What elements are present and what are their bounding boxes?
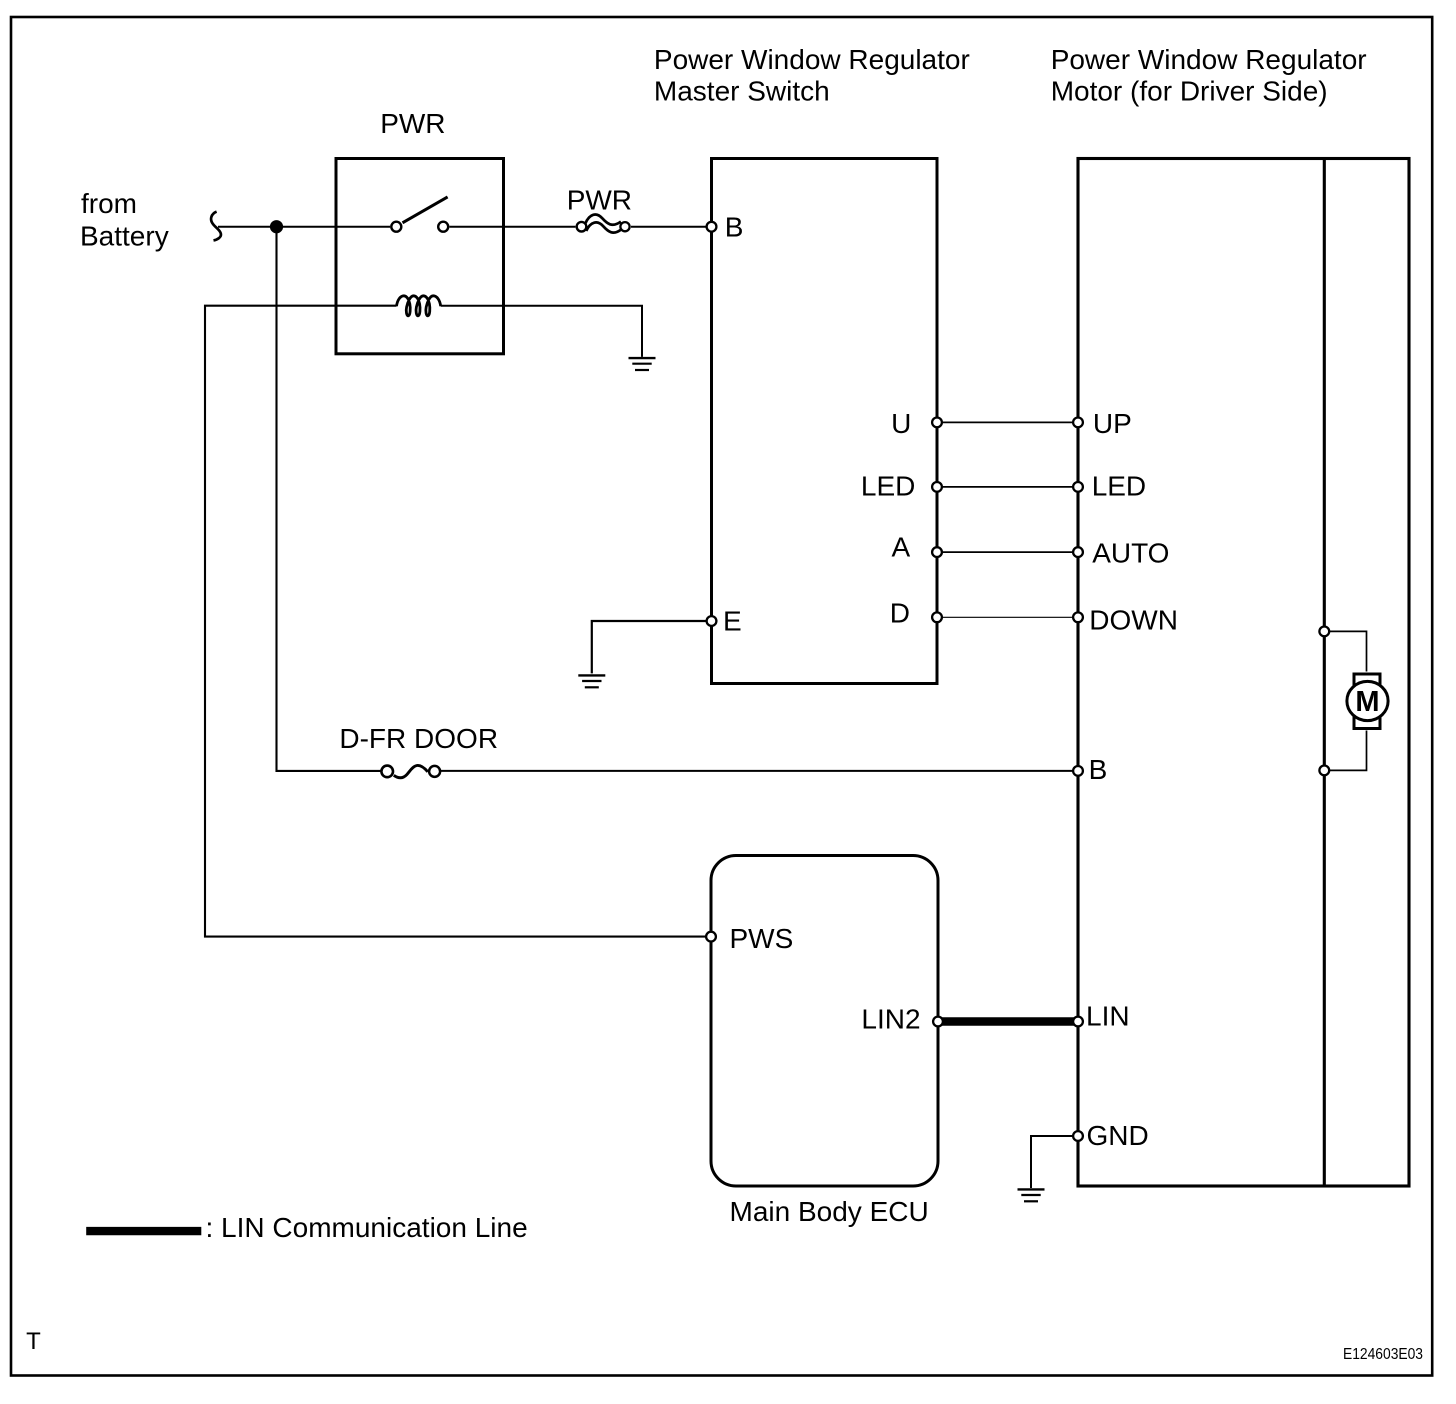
relay PWR box xyxy=(336,159,504,354)
wire: coil right lead to ground xyxy=(441,306,642,357)
LIN communication line (thick) xyxy=(942,1017,1074,1025)
terminal motor + (bus upper) xyxy=(1319,627,1329,637)
svg-text:U: U xyxy=(891,408,911,439)
terminal U (master switch) xyxy=(932,418,942,428)
svg-text:LED: LED xyxy=(861,471,915,502)
terminal E xyxy=(707,616,717,626)
svg-text:Main Body ECU: Main Body ECU xyxy=(730,1196,929,1227)
svg-text:PWR: PWR xyxy=(380,108,445,139)
svg-text:LIN: LIN xyxy=(1086,1001,1130,1032)
title: Power Window Regulator Master Switch xyxy=(654,44,970,107)
motor box xyxy=(1078,159,1409,1187)
terminal LED (master switch) xyxy=(932,482,942,492)
wire: D to DOWN xyxy=(943,616,1072,618)
master switch box xyxy=(712,159,938,684)
svg-text:Battery: Battery xyxy=(80,220,169,251)
svg-text:A: A xyxy=(892,531,911,562)
svg-text:: LIN Communication Line: : LIN Communication Line xyxy=(206,1212,528,1243)
svg-text:Power Window Regulator: Power Window Regulator xyxy=(1051,44,1367,75)
battery connector pigtail xyxy=(211,212,221,241)
motor M1 (window regulator motor) xyxy=(1347,674,1388,729)
svg-text:PWS: PWS xyxy=(730,923,794,954)
svg-text:E124603E03: E124603E03 xyxy=(1343,1346,1423,1363)
fuse D-FR DOOR (wavy element) xyxy=(394,765,428,777)
svg-text:Motor (for Driver Side): Motor (for Driver Side) xyxy=(1051,75,1328,106)
wire: coil left lead / PWS feed xyxy=(205,306,706,937)
label: from Battery xyxy=(80,188,169,251)
wire: relay switch to fuse PWR xyxy=(450,226,576,228)
wire: motor bus to motor top brush xyxy=(1330,631,1367,671)
wire: battery node down to D-FR DOOR fuse xyxy=(277,227,382,771)
legend: LIN communication line sample xyxy=(86,1227,201,1235)
terminal UP (motor) xyxy=(1073,418,1083,428)
fuse PWR terminal left xyxy=(577,222,587,232)
terminal GND (motor) xyxy=(1073,1131,1083,1141)
svg-text:from: from xyxy=(81,188,137,219)
terminal B (motor) xyxy=(1073,766,1083,776)
wire: A to AUTO xyxy=(943,551,1072,553)
svg-text:UP: UP xyxy=(1093,408,1132,439)
svg-text:B: B xyxy=(725,212,744,243)
terminal motor - (bus lower) xyxy=(1319,766,1329,776)
svg-text:B: B xyxy=(1089,754,1108,785)
terminal LIN (motor) xyxy=(1073,1017,1083,1027)
svg-text:AUTO: AUTO xyxy=(1092,537,1169,568)
wire: motor bottom brush to motor bus xyxy=(1330,731,1367,771)
svg-text:DOWN: DOWN xyxy=(1089,604,1178,635)
terminal AUTO (motor) xyxy=(1073,547,1083,557)
relay switch blade xyxy=(403,197,448,223)
fuse D-FR DOOR terminal left xyxy=(381,766,393,778)
svg-text:Power Window Regulator: Power Window Regulator xyxy=(654,44,970,75)
wire: U to UP xyxy=(943,421,1072,423)
wire: battery feed to relay switch xyxy=(218,226,390,228)
terminal A (master switch) xyxy=(932,547,942,557)
main body ECU box xyxy=(711,856,938,1187)
svg-text:T: T xyxy=(26,1328,41,1355)
svg-text:Master Switch: Master Switch xyxy=(654,75,830,106)
terminal DOWN (motor) xyxy=(1073,612,1083,622)
junction: battery node xyxy=(270,220,283,233)
svg-text:PWR: PWR xyxy=(567,185,632,216)
title: Power Window Regulator Motor (for Driver Side) xyxy=(1051,44,1367,107)
fuse PWR terminal right xyxy=(620,222,629,231)
wire: GND to ground xyxy=(1031,1136,1073,1188)
ground: master switch E xyxy=(578,675,605,687)
relay switch contact left xyxy=(391,222,401,232)
svg-text:D: D xyxy=(890,597,910,628)
motor box internal bus line xyxy=(1323,159,1326,1187)
svg-text:D-FR DOOR: D-FR DOOR xyxy=(339,723,498,754)
svg-text:M: M xyxy=(1355,686,1379,718)
relay switch contact right xyxy=(438,222,448,232)
ground: motor GND xyxy=(1018,1189,1045,1201)
fuse D-FR DOOR terminal right xyxy=(429,766,440,777)
terminal LIN2 xyxy=(933,1017,943,1027)
fuse PWR (wavy element) xyxy=(585,214,621,232)
terminal PWS xyxy=(706,932,716,942)
wire: D-FR DOOR fuse to motor B xyxy=(440,770,1073,772)
terminal D (master switch) xyxy=(932,612,942,622)
wire: E to ground xyxy=(592,621,707,673)
wire: fuse PWR to master switch B xyxy=(631,226,707,228)
svg-text:GND: GND xyxy=(1087,1120,1149,1151)
terminal LED (motor) xyxy=(1073,482,1083,492)
wire: LED to LED xyxy=(943,486,1072,488)
svg-text:E: E xyxy=(723,606,742,637)
ground: relay coil xyxy=(629,358,656,370)
svg-text:LED: LED xyxy=(1092,471,1146,502)
terminal B (master switch) xyxy=(707,222,717,232)
svg-text:LIN2: LIN2 xyxy=(861,1004,920,1035)
relay coil xyxy=(397,296,441,316)
